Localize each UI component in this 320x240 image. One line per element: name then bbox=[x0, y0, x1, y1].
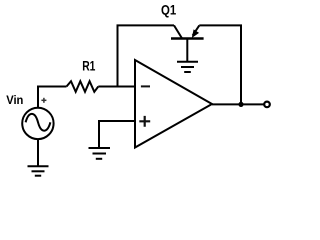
wire feedback vertical left bbox=[117, 25, 119, 86]
node output junction bbox=[238, 102, 243, 107]
ground below Vin bbox=[28, 166, 49, 176]
wire feedback top right segment bbox=[199, 24, 242, 26]
wire feedback top left segment bbox=[117, 24, 175, 26]
wire op-amp non-inverting input bbox=[99, 121, 135, 147]
transistor Q1 bbox=[171, 25, 204, 61]
op-amp U1 bbox=[135, 60, 212, 148]
resistor R1 bbox=[67, 81, 99, 92]
ground at transistor base bbox=[177, 62, 198, 72]
svg-text:Vin: Vin bbox=[6, 93, 23, 107]
output terminal bbox=[264, 102, 270, 108]
wire Vin top vertical bbox=[37, 86, 39, 108]
voltage source Vin bbox=[22, 108, 53, 139]
wire source bottom to ground bbox=[37, 139, 39, 167]
wire input horizontal from Vin to R1 bbox=[38, 86, 67, 88]
svg-text:Q1: Q1 bbox=[161, 3, 177, 18]
wire feedback vertical right bbox=[240, 25, 242, 104]
plus polarity mark of source bbox=[41, 98, 46, 103]
ground at op-amp non-inverting input bbox=[89, 148, 111, 159]
svg-text:R1: R1 bbox=[82, 59, 96, 74]
wire R1 to op-amp inverting input bbox=[98, 86, 135, 88]
wire output bbox=[212, 103, 264, 105]
